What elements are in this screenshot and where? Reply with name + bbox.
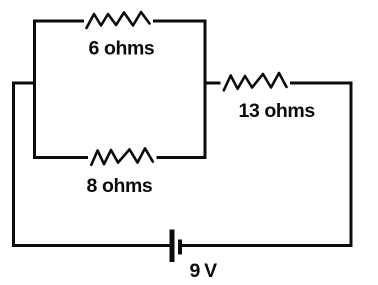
wire: 8-ohm branch left segment bbox=[33, 156, 88, 159]
wire: parallel-block right vertical bbox=[204, 20, 207, 160]
svg-text:9 V: 9 V bbox=[190, 260, 218, 282]
battery 9 V: long plate bbox=[170, 230, 175, 263]
wire: middle branch right segment bbox=[290, 82, 353, 85]
resistor 6 ohms (zigzag) bbox=[87, 12, 150, 28]
svg-text:6 ohms: 6 ohms bbox=[89, 38, 155, 60]
svg-text:13 ohms: 13 ohms bbox=[239, 100, 316, 122]
wire: middle branch left stub bbox=[204, 82, 221, 85]
wire: outer left vertical bbox=[12, 82, 15, 248]
wire: 8-ohm branch right segment bbox=[157, 156, 207, 159]
wire: outer right vertical bbox=[350, 82, 353, 248]
wire: bottom rail left segment bbox=[12, 244, 170, 247]
wire: top rail left segment bbox=[33, 20, 84, 23]
wire: parallel-block left vertical bbox=[33, 20, 36, 160]
battery 9 V: short plate bbox=[178, 240, 182, 255]
svg-text:8 ohms: 8 ohms bbox=[87, 175, 153, 197]
resistor 13 ohms (zigzag) bbox=[224, 73, 287, 90]
resistor 8 ohms (zigzag) bbox=[91, 148, 153, 165]
wire: bottom rail right segment bbox=[182, 244, 353, 247]
wire: top rail right segment bbox=[153, 20, 207, 23]
wire: left node stub (junction to parallel block) bbox=[12, 82, 36, 85]
